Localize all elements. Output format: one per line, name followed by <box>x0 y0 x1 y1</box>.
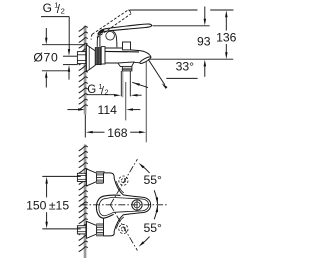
55deg diagonal down <box>110 205 137 251</box>
O70 dim arrows <box>45 28 47 40</box>
136 dim line <box>225 10 228 17</box>
150 dim line <box>45 177 48 184</box>
lever ring center tick <box>136 200 138 211</box>
handle base bulge (plan) <box>96 195 120 218</box>
33deg horizontal leg <box>166 77 197 79</box>
mixer square block on body <box>123 42 131 50</box>
handle (plan view) inner contour <box>99 197 149 215</box>
shower diverter trapezoid <box>118 62 134 67</box>
lever handle (closed, solid) <box>98 24 152 34</box>
spout tip extension line <box>145 62 147 143</box>
supply hex bottom (plan) <box>77 226 86 234</box>
faucet body (side view) <box>105 48 134 63</box>
G1/2 leader underline+stem <box>41 16 69 18</box>
svg-text:2: 2 <box>105 88 109 97</box>
union nut top (plan) <box>97 172 104 184</box>
93 dim line <box>204 7 206 21</box>
escutcheon cone bottom (plan) <box>87 221 97 238</box>
55deg diagonal up <box>110 159 137 205</box>
wall extension line below <box>84 114 86 137</box>
55deg arc upper seg1 <box>141 165 150 173</box>
spout head and outlet <box>134 50 151 58</box>
extension line A raised-handle top <box>130 9 198 11</box>
svg-text:2: 2 <box>61 7 65 16</box>
55deg arc upper outer arrowhead <box>139 163 145 169</box>
outlet union nut <box>122 66 132 71</box>
svg-text:150 ±15: 150 ±15 <box>26 199 69 213</box>
svg-text:93: 93 <box>197 35 211 49</box>
G1/2 bottom arrow+stem <box>68 65 70 72</box>
55deg arc lower outer arrowhead <box>139 241 145 247</box>
55deg arc lower seg1 <box>141 237 150 245</box>
extension line B closed-handle top <box>153 25 210 27</box>
union nut bottom (plan) <box>97 224 104 236</box>
body flange ring <box>101 47 105 64</box>
outlet axis extension line <box>125 82 127 120</box>
svg-text:33°: 33° <box>176 59 195 73</box>
G1/2 extension lines <box>63 55 77 57</box>
wall hatching (plan view) <box>79 146 88 151</box>
outlet reference line <box>150 58 234 60</box>
55deg arc upper inner arrowhead <box>156 197 159 204</box>
svg-text:55°: 55° <box>143 221 162 235</box>
33deg arrowhead <box>162 83 168 89</box>
G1/2 outlet underline+arrow <box>87 94 116 96</box>
cartridge dome <box>97 30 117 48</box>
in-wall supply hex fitting <box>77 52 85 64</box>
escutcheon cone (side view) <box>86 45 95 72</box>
O70 extension lines <box>42 44 85 46</box>
wall hatching (side view) <box>79 27 88 32</box>
lever ring inner <box>134 202 140 208</box>
150 extension lines <box>42 175 81 177</box>
55deg arc lower inner arrowhead <box>156 205 159 212</box>
svg-text:Ø70: Ø70 <box>33 50 58 64</box>
dashed circle upper (handle rotated) <box>119 176 128 185</box>
168 dim line <box>86 131 93 134</box>
114 dim line <box>67 109 79 111</box>
lever ring outer <box>132 200 142 210</box>
escutcheon cone top (plan) <box>87 169 97 186</box>
svg-text:55°: 55° <box>143 173 162 187</box>
lever raised dashed outline <box>92 10 128 34</box>
dome pivot boss arc <box>106 32 115 41</box>
svg-text:G: G <box>87 84 96 96</box>
svg-text:136: 136 <box>216 30 237 44</box>
wall (side view) <box>84 26 87 115</box>
55deg arc lower seg2 <box>154 205 157 219</box>
svg-text:114: 114 <box>97 103 117 117</box>
inner wing lines <box>116 181 124 193</box>
centerline horizontal <box>81 204 167 206</box>
shower outlet pipe <box>120 71 122 97</box>
leader to outlet thread <box>133 83 140 86</box>
body+handle silhouette (plan) <box>104 173 151 236</box>
55deg arc upper seg2 <box>154 190 157 204</box>
G1/2 top arrow <box>68 49 70 56</box>
svg-text:G: G <box>43 1 52 15</box>
wall (plan view) <box>84 145 87 259</box>
dashed circle lower (handle rotated) <box>119 224 128 233</box>
union nut knurled (side view) <box>95 48 101 65</box>
33deg angled leg <box>148 59 165 85</box>
G1/2 outlet right arrow <box>131 94 138 97</box>
svg-text:168: 168 <box>107 126 128 140</box>
supply hex top (plan) <box>77 173 86 181</box>
